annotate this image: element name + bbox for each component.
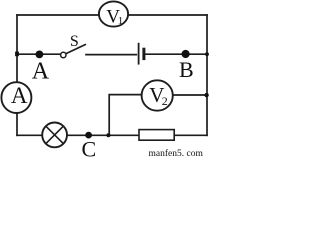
svg-text:C: C xyxy=(82,137,97,160)
svg-text:2: 2 xyxy=(162,94,168,108)
svg-text:A: A xyxy=(32,59,50,85)
svg-text:manfen5. com: manfen5. com xyxy=(149,148,204,159)
svg-text:1: 1 xyxy=(118,15,124,27)
svg-text:B: B xyxy=(179,57,194,82)
svg-text:A: A xyxy=(11,83,28,108)
svg-text:S: S xyxy=(70,33,79,50)
